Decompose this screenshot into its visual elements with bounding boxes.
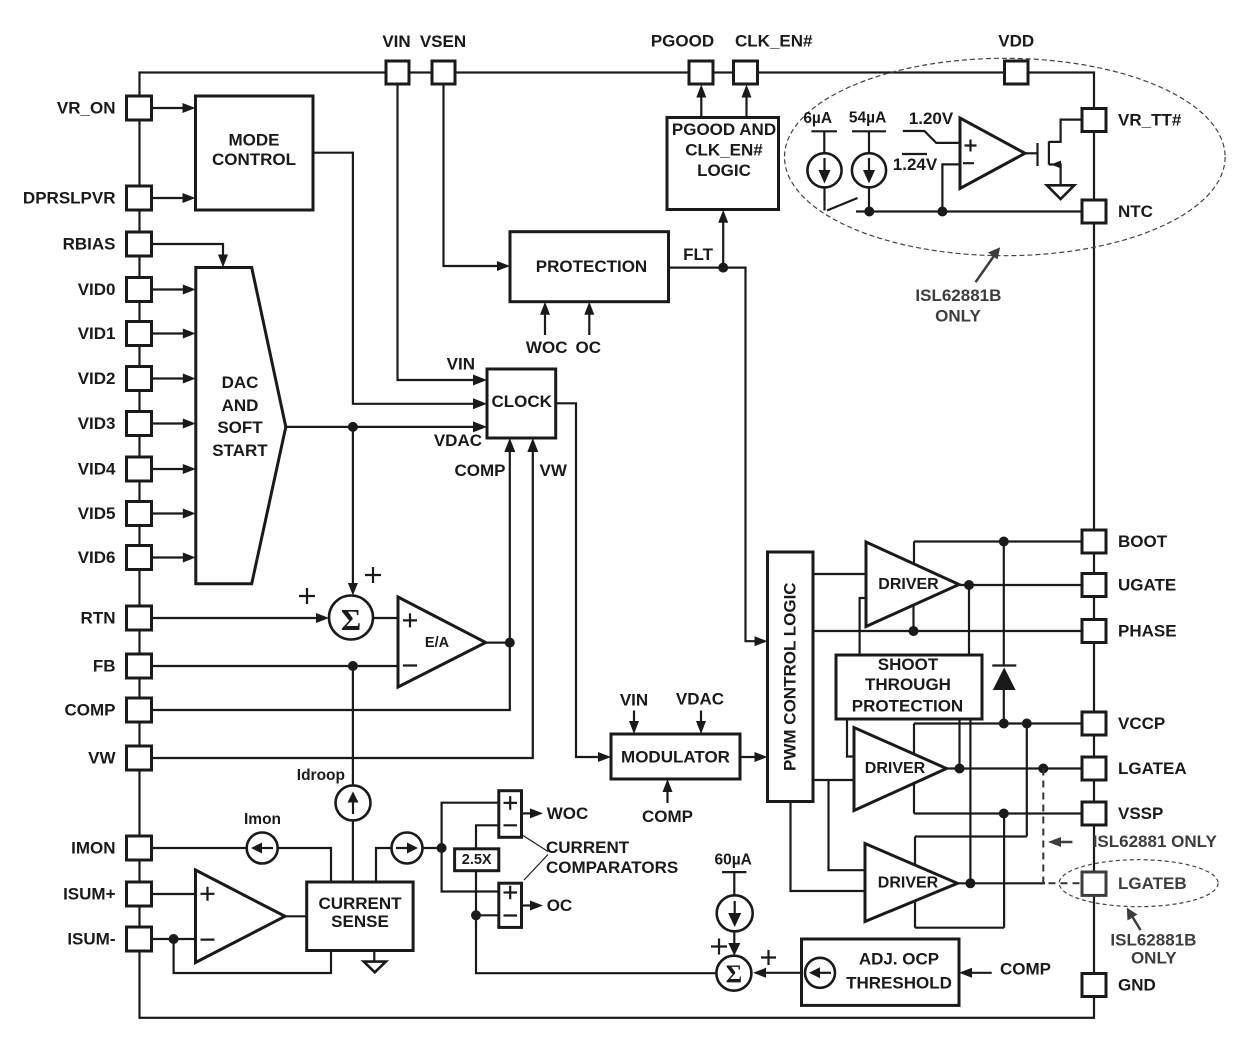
wire PWM branch to driver3 input bbox=[829, 780, 866, 870]
wire shoot-through to LGATEA output bbox=[958, 719, 960, 769]
wire NTC row bbox=[856, 210, 1082, 212]
wire PHASE row bbox=[813, 630, 1082, 632]
wire VID1 to DAC bbox=[152, 332, 187, 334]
svg-text:VID3: VID3 bbox=[78, 414, 116, 433]
svg-text:VCCP: VCCP bbox=[1118, 714, 1165, 733]
wire VDAC node down to summer bbox=[352, 427, 354, 586]
node OC threshold junction bbox=[471, 910, 481, 920]
block CLOCK bbox=[487, 369, 556, 438]
wire LGATEA row bbox=[947, 767, 1083, 769]
wire RTN pin to summer bbox=[152, 617, 321, 619]
wire 60uA source to summer2 bbox=[733, 872, 735, 895]
svg-text:PGOOD: PGOOD bbox=[651, 32, 714, 51]
wire VIN to modulator bbox=[633, 711, 635, 726]
wire VCCP to driver3 box bbox=[1026, 724, 1028, 837]
annotation ellipse LGATEB bbox=[1059, 860, 1218, 907]
svg-text:ISUM-: ISUM- bbox=[67, 930, 115, 949]
arrowheads VID0-VID6 bbox=[183, 285, 196, 295]
wire VID0 to DAC bbox=[152, 288, 187, 290]
svg-text:Σ: Σ bbox=[726, 961, 742, 988]
comparator OC bbox=[499, 883, 522, 927]
svg-text:54µA: 54µA bbox=[849, 110, 886, 127]
arrowhead COMP into ADJ OCP bbox=[959, 968, 972, 978]
svg-text:PHASE: PHASE bbox=[1118, 622, 1177, 641]
svg-text:SHOOT: SHOOT bbox=[878, 655, 939, 674]
diode D1 (bootstrap) bbox=[992, 664, 1016, 666]
pin ISUM+ bbox=[127, 882, 152, 906]
wire VID3 to DAC bbox=[152, 422, 187, 424]
wire comparator to MOSFET gate bbox=[1025, 152, 1038, 154]
wire VSEN pin to PROTECTION bbox=[444, 84, 502, 266]
svg-text:6µA: 6µA bbox=[803, 110, 832, 127]
arrowhead MODULATOR into PWM bbox=[755, 752, 768, 762]
arrowheads into CLOCK bbox=[473, 375, 487, 386]
svg-text:PROTECTION: PROTECTION bbox=[536, 257, 647, 276]
wire PWM to driver1 input bbox=[813, 573, 866, 575]
arrowhead ADJ OCP into summer2 bbox=[753, 968, 766, 978]
svg-text:VID5: VID5 bbox=[78, 504, 116, 523]
reference 1.24V lead bbox=[942, 164, 960, 211]
wire driver3 box bottom bbox=[915, 927, 1004, 929]
block SHOOT THROUGH PROTECTION bbox=[836, 655, 982, 719]
switch (6uA) bbox=[827, 198, 858, 211]
pin VR_TT# bbox=[1082, 109, 1106, 132]
svg-text:VID2: VID2 bbox=[78, 369, 116, 388]
svg-text:FLT: FLT bbox=[683, 245, 714, 264]
arrowheads PGOOD/CLK_EN# bbox=[696, 85, 706, 98]
block PWM CONTROL LOGIC bbox=[768, 552, 814, 802]
wire FB pin to E/A inverting input bbox=[152, 665, 399, 667]
wire bootstrap diode net bbox=[1003, 542, 1005, 666]
svg-text:VDD: VDD bbox=[998, 32, 1034, 51]
arrowhead VR_ON bbox=[183, 103, 196, 113]
block MODULATOR bbox=[611, 734, 740, 779]
wire shoot-through to driver2 input bbox=[847, 719, 854, 757]
wire VSSP row bbox=[914, 812, 1082, 814]
pin PGOOD bbox=[689, 61, 713, 84]
svg-text:GND: GND bbox=[1118, 976, 1156, 995]
wire current sense to droop mirror bbox=[376, 848, 392, 882]
pin DPRSLPVR bbox=[127, 186, 152, 210]
pin CLK_EN# bbox=[734, 61, 758, 84]
current source droop output bbox=[392, 833, 423, 864]
wire ADJ OCP to summer2 bbox=[764, 972, 805, 974]
wire VIN pin to CLOCK bbox=[398, 84, 479, 380]
svg-text:THROUGH: THROUGH bbox=[865, 675, 951, 694]
wire ISUM- feedback to current sense bottom bbox=[174, 939, 331, 973]
pin BOOT bbox=[1082, 530, 1106, 553]
svg-text:ONLY: ONLY bbox=[935, 307, 981, 326]
svg-text:VR_TT#: VR_TT# bbox=[1118, 111, 1182, 130]
wire BOOT stub to driver1 bbox=[913, 542, 915, 564]
wire IMON pin to Imon source bbox=[152, 847, 247, 849]
node FLT junction bbox=[718, 263, 728, 273]
node LGATEA output bbox=[955, 764, 965, 774]
arrowhead DPRSLPVR bbox=[183, 193, 196, 203]
wire CLOCK output to MODULATOR bbox=[556, 403, 602, 757]
current source ADJ OCP bbox=[805, 958, 835, 988]
svg-text:SOFT: SOFT bbox=[217, 418, 263, 437]
svg-text:1.20V: 1.20V bbox=[909, 109, 954, 128]
svg-text:FB: FB bbox=[93, 657, 116, 676]
wire Idroop branch (FB node down to current sense) bbox=[352, 666, 354, 785]
wire VW net (VW pin to CLOCK) bbox=[152, 450, 533, 758]
wire VID4 to DAC bbox=[152, 468, 187, 470]
svg-text:ISUM+: ISUM+ bbox=[63, 885, 116, 904]
wire DAC output to CLOCK (VDAC) bbox=[286, 426, 478, 428]
svg-text:THRESHOLD: THRESHOLD bbox=[846, 974, 952, 993]
pin ISUM- bbox=[127, 927, 152, 951]
svg-text:60µA: 60µA bbox=[715, 852, 752, 869]
svg-text:VSEN: VSEN bbox=[420, 32, 466, 51]
current source Imon bbox=[247, 833, 278, 864]
comparator WOC bbox=[499, 791, 522, 838]
node UGATE output bbox=[964, 580, 974, 590]
svg-text:UGATE: UGATE bbox=[1118, 576, 1176, 595]
svg-text:Imon: Imon bbox=[244, 811, 281, 828]
svg-text:VID0: VID0 bbox=[78, 280, 116, 299]
arrowheads WOC/OC into protection bbox=[540, 302, 550, 315]
wire OC- input bbox=[476, 914, 499, 916]
svg-text:RBIAS: RBIAS bbox=[63, 235, 116, 254]
plus sign (60uA input) bbox=[711, 939, 727, 955]
svg-text:COMPARATORS: COMPARATORS bbox=[546, 858, 678, 877]
node droop junction bbox=[437, 843, 447, 853]
wire driver3 box right to VSSP bbox=[1003, 814, 1005, 928]
annotation arrow ISL62881B only (bottom) bbox=[1131, 915, 1141, 931]
wire RBIAS to DAC bbox=[152, 244, 224, 258]
block DAC AND SOFT START bbox=[196, 268, 286, 584]
wire PWM to driver2 input bbox=[813, 779, 854, 781]
pin VID2 bbox=[127, 367, 152, 391]
svg-text:BOOT: BOOT bbox=[1118, 532, 1168, 551]
pin VID6 bbox=[127, 546, 152, 570]
pin UGATE bbox=[1082, 574, 1106, 597]
wire E/A output to COMP node bbox=[486, 641, 510, 643]
node PHASE junction bbox=[909, 626, 919, 636]
summer 1 (sigma) bbox=[329, 596, 373, 640]
arrowhead summer top input bbox=[348, 583, 358, 596]
pin VID3 bbox=[127, 412, 152, 436]
node BOOT junction bbox=[999, 537, 1009, 547]
plus sign (RTN input) bbox=[299, 588, 315, 604]
pin VDD bbox=[1005, 61, 1029, 84]
svg-text:VSSP: VSSP bbox=[1118, 804, 1163, 823]
wire driver3 box left bbox=[914, 837, 916, 928]
wire MODULATOR to PWM bbox=[740, 756, 758, 758]
node VCCP diode junction bbox=[999, 719, 1009, 729]
arrowhead RBIAS bbox=[218, 255, 228, 268]
wire UGATE to shoot-through protection bbox=[968, 585, 970, 655]
svg-text:VW: VW bbox=[540, 461, 568, 480]
svg-text:OC: OC bbox=[576, 338, 602, 357]
pin IMON bbox=[127, 836, 152, 860]
svg-text:SENSE: SENSE bbox=[331, 912, 389, 931]
current source Idroop bbox=[336, 785, 371, 820]
svg-text:ISL62881B: ISL62881B bbox=[1110, 931, 1196, 950]
wire WOC- to 2.5X bbox=[476, 825, 499, 849]
op-amp ISUM current amp bbox=[196, 870, 286, 963]
pin RTN bbox=[127, 606, 152, 630]
wire DPRSLPVR to MODE CONTROL bbox=[152, 197, 187, 199]
wire UGATE row bbox=[959, 584, 1082, 586]
svg-text:CLK_EN#: CLK_EN# bbox=[735, 32, 813, 51]
svg-text:CLK_EN#: CLK_EN# bbox=[685, 141, 763, 160]
wire VCCP row bbox=[914, 722, 1082, 724]
driver D1 (UGATE) bbox=[866, 542, 959, 627]
wire PGOOD logic to PGOOD pin bbox=[700, 96, 702, 118]
svg-text:RTN: RTN bbox=[81, 609, 116, 628]
svg-text:MODE: MODE bbox=[229, 131, 280, 150]
pin VW bbox=[127, 746, 152, 770]
wire ISUM- to amp bbox=[152, 938, 196, 940]
svg-text:VIN: VIN bbox=[382, 32, 410, 51]
svg-text:CONTROL: CONTROL bbox=[212, 150, 296, 169]
wire WOC input to PROTECTION bbox=[544, 313, 546, 335]
block PROTECTION bbox=[510, 232, 669, 302]
wire LGATEB row bbox=[958, 882, 1046, 884]
svg-text:VW: VW bbox=[88, 749, 116, 768]
svg-text:Σ: Σ bbox=[341, 602, 361, 637]
current source 60uA bbox=[717, 895, 753, 931]
wire summer to E/A bbox=[373, 617, 398, 619]
wire OCP threshold from summer2 bbox=[476, 915, 716, 973]
node 54uA junction bbox=[864, 207, 874, 217]
svg-text:DRIVER: DRIVER bbox=[865, 760, 926, 777]
pin VID5 bbox=[127, 502, 152, 526]
pin VSSP bbox=[1082, 802, 1106, 825]
svg-text:PGOOD AND: PGOOD AND bbox=[672, 120, 776, 139]
wire OC output bbox=[522, 904, 532, 906]
wire Imon source to current sense bbox=[278, 848, 331, 882]
wire driver2 left edge bbox=[913, 724, 915, 814]
svg-text:ISL62881B: ISL62881B bbox=[915, 286, 1001, 305]
block CURRENT SENSE bbox=[307, 882, 413, 951]
svg-text:COMP: COMP bbox=[642, 807, 693, 826]
pin VID1 bbox=[127, 322, 152, 346]
pin LGATEA bbox=[1082, 757, 1106, 780]
wire COMP to ADJ OCP bbox=[970, 972, 992, 974]
wire shoot-through to LGATEB output bbox=[969, 719, 971, 883]
driver D2 (LGATEA) bbox=[854, 728, 947, 811]
plus sign (VDAC input) bbox=[365, 567, 381, 583]
wire amp output to current sense bbox=[285, 915, 307, 917]
wire VID6 to DAC bbox=[152, 556, 187, 558]
svg-text:OC: OC bbox=[547, 896, 573, 915]
node LGATEB output bbox=[965, 878, 975, 888]
node ISUM- junction bbox=[169, 934, 179, 944]
wire FLT up to PGOOD logic bbox=[722, 222, 724, 268]
pin NTC bbox=[1082, 200, 1106, 223]
svg-text:IMON: IMON bbox=[71, 839, 115, 858]
svg-text:DAC: DAC bbox=[222, 373, 259, 392]
svg-text:PWM CONTROL LOGIC: PWM CONTROL LOGIC bbox=[781, 582, 800, 771]
current source 6uA with top bar bbox=[811, 130, 837, 132]
chip outline rails (top rail, left rail, bottom rail, right rail) bbox=[140, 73, 1095, 1018]
wire droop node to OC+ bbox=[442, 848, 499, 892]
wire COMP net vertical (COMP pin to E/A output to CLOCK) bbox=[152, 450, 510, 710]
node LGATEA dashed branch bbox=[1038, 764, 1048, 774]
arrowhead CLOCK into MODULATOR bbox=[598, 752, 611, 762]
arrowhead 60uA into summer2 bbox=[728, 943, 740, 956]
svg-text:MODULATOR: MODULATOR bbox=[621, 748, 730, 767]
svg-text:VR_ON: VR_ON bbox=[57, 99, 116, 118]
pin FB bbox=[127, 654, 152, 678]
annotation arrow to ellipse bbox=[976, 253, 997, 282]
svg-text:E/A: E/A bbox=[425, 635, 450, 651]
svg-text:DPRSLPVR: DPRSLPVR bbox=[23, 189, 116, 208]
svg-text:1.24V: 1.24V bbox=[893, 155, 938, 174]
arrowhead FLT into PWM bbox=[755, 636, 768, 646]
wire ISUM+ to amp bbox=[152, 893, 196, 895]
transistor Q1 (VR_TT# pulldown MOSFET) bbox=[1036, 143, 1038, 166]
dashed wire LGATEA to LGATEB (ISL62881 only) bbox=[1043, 769, 1082, 884]
arrowhead RTN into summer bbox=[316, 613, 329, 623]
wire PGOOD logic to CLK_EN# pin bbox=[745, 96, 747, 118]
svg-text:Idroop: Idroop bbox=[297, 767, 345, 784]
plus sign (ADJ OCP input) bbox=[761, 950, 776, 965]
reference 1.20V lead bbox=[903, 131, 960, 143]
op-amp E/A bbox=[398, 597, 486, 687]
pin VIN bbox=[386, 61, 409, 84]
arrowhead VSEN into protection bbox=[497, 261, 510, 271]
pin VID0 bbox=[127, 278, 152, 302]
svg-text:ISL62881 ONLY: ISL62881 ONLY bbox=[1093, 832, 1218, 851]
svg-text:ONLY: ONLY bbox=[1131, 949, 1177, 968]
annotation ellipse ISL62881B top bbox=[785, 58, 1226, 255]
wire VID5 to DAC bbox=[152, 512, 187, 514]
svg-text:DRIVER: DRIVER bbox=[878, 875, 939, 892]
wire 60uA top bar bbox=[722, 871, 746, 873]
wire droop node to WOC+ bbox=[442, 803, 499, 848]
arrowheads into modulator bbox=[629, 721, 639, 734]
summer 2 (sigma) bbox=[716, 956, 751, 991]
svg-text:CURRENT: CURRENT bbox=[546, 838, 630, 857]
svg-text:COMP: COMP bbox=[65, 701, 116, 720]
block ADJ OCP THRESHOLD bbox=[802, 939, 960, 1005]
wire VID2 to DAC bbox=[152, 377, 187, 379]
svg-text:CLOCK: CLOCK bbox=[491, 392, 552, 411]
node VDAC junction bbox=[348, 422, 358, 432]
pin LGATEB (gray, ISL62881B only) bbox=[1082, 872, 1106, 895]
svg-text:LGATEA: LGATEA bbox=[1118, 759, 1187, 778]
svg-text:VID4: VID4 bbox=[78, 460, 116, 479]
driver D3 (LGATEB) bbox=[865, 844, 958, 922]
svg-text:NTC: NTC bbox=[1118, 202, 1153, 221]
wire BOOT row bbox=[914, 540, 1082, 542]
arrowhead FLT into PGOOD logic bbox=[718, 210, 728, 223]
svg-text:COMP: COMP bbox=[1000, 960, 1051, 979]
wire FLT net bbox=[669, 268, 759, 642]
wire VR_ON to MODE CONTROL bbox=[152, 107, 187, 109]
node VCCP driver3 junction bbox=[1022, 719, 1032, 729]
wire PHASE stub to driver1 bbox=[912, 605, 914, 631]
svg-text:VDAC: VDAC bbox=[434, 431, 482, 450]
svg-text:LOGIC: LOGIC bbox=[697, 161, 751, 180]
ground (current sense) bbox=[373, 951, 375, 962]
wire driver3 box top bbox=[915, 835, 1027, 837]
node comparator reference junction bbox=[937, 207, 947, 217]
pin GND bbox=[1082, 974, 1106, 997]
svg-text:AND: AND bbox=[222, 396, 259, 415]
ground (MOSFET source) bbox=[1047, 185, 1074, 199]
pin VSEN bbox=[432, 61, 455, 84]
block MODE CONTROL bbox=[196, 96, 314, 210]
wire PWM bottom to driver3 input bbox=[791, 802, 866, 892]
svg-text:COMP: COMP bbox=[455, 461, 506, 480]
svg-text:2.5X: 2.5X bbox=[462, 852, 492, 868]
wire MODE CONTROL output to CLOCK bbox=[313, 153, 478, 404]
svg-text:LGATEB: LGATEB bbox=[1118, 874, 1187, 893]
node VSSP junction bbox=[999, 809, 1009, 819]
svg-text:DRIVER: DRIVER bbox=[878, 576, 939, 593]
wire 2.5X to OC- node bbox=[475, 871, 477, 916]
svg-text:CURRENT: CURRENT bbox=[318, 894, 402, 913]
label CURRENT COMPARATORS with pointer lines bbox=[523, 836, 548, 852]
current source 54uA with top bar bbox=[852, 130, 886, 132]
pin VID4 bbox=[127, 457, 152, 481]
svg-text:WOC: WOC bbox=[526, 338, 568, 357]
svg-text:WOC: WOC bbox=[547, 804, 589, 823]
wire OC input to PROTECTION bbox=[588, 313, 590, 335]
comparator U1 (NTC) bbox=[960, 118, 1025, 189]
pin VCCP bbox=[1082, 712, 1106, 735]
block 2.5X bbox=[455, 849, 499, 871]
svg-text:VIN: VIN bbox=[447, 355, 475, 374]
wire shoot-through to driver1 input bbox=[860, 598, 866, 655]
wire VDAC to modulator bbox=[700, 711, 702, 726]
svg-text:ADJ. OCP: ADJ. OCP bbox=[859, 950, 939, 969]
wire WOC output bbox=[522, 812, 532, 814]
node E/A output bbox=[505, 638, 515, 648]
svg-text:VID6: VID6 bbox=[78, 548, 116, 567]
pin COMP bbox=[127, 698, 152, 722]
svg-text:VIN: VIN bbox=[620, 691, 648, 710]
node FB junction bbox=[348, 661, 358, 671]
pin RBIAS bbox=[127, 232, 152, 256]
wire COMP to modulator bbox=[666, 788, 668, 803]
svg-text:VID1: VID1 bbox=[78, 324, 116, 343]
wire droop mirror to droop node bbox=[423, 847, 442, 849]
svg-text:VDAC: VDAC bbox=[676, 690, 724, 709]
svg-text:PROTECTION: PROTECTION bbox=[852, 696, 963, 715]
pin VR_ON bbox=[127, 96, 152, 120]
pin PHASE bbox=[1082, 620, 1106, 643]
svg-text:START: START bbox=[212, 441, 268, 460]
block PGOOD AND CLK_EN# LOGIC bbox=[667, 118, 779, 210]
